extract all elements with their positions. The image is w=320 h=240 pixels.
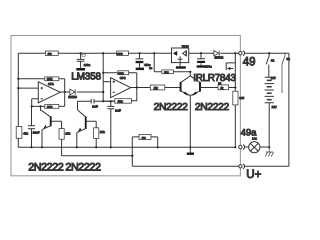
wire Q1 collector to feedback — [40, 106, 43, 110]
wire Q2 emitter down — [76, 132, 79, 147]
wire OP1 top feedback row — [18, 79, 64, 107]
ground — [187, 147, 194, 155]
svg-text:S1: S1 — [271, 59, 275, 63]
svg-text:OP1: OP1 — [48, 82, 54, 86]
svg-text:0.05: 0.05 — [239, 97, 244, 100]
junction dot — [234, 52, 236, 54]
svg-text:2N2222: 2N2222 — [154, 102, 189, 113]
diode D1 1N4148 — [68, 89, 77, 99]
wire OP2 100k row — [103, 73, 137, 88]
resistor R3 40k — [16, 127, 28, 139]
capacitor C8 100n — [197, 53, 212, 68]
wire left bias column — [17, 53, 19, 147]
resistor R11 5R6 — [162, 70, 174, 74]
wire 2k2 right drop — [151, 137, 158, 148]
junction dot — [189, 71, 191, 73]
wire OP2 feedback row — [103, 100, 115, 102]
capacitor C7 470u — [136, 53, 151, 67]
svg-text:2N2222: 2N2222 — [28, 161, 64, 173]
op-amp OP2 — [111, 76, 131, 98]
wire OP1 inverting input — [32, 99, 39, 107]
resistor R4 100k — [45, 77, 59, 81]
wire Q3 base stub — [179, 87, 181, 89]
switch S2 — [282, 53, 290, 93]
junction dot — [31, 105, 33, 107]
svg-text:2k2: 2k2 — [142, 137, 147, 140]
svg-text:100k: 100k — [47, 106, 53, 109]
svg-text:1n4F: 1n4F — [92, 105, 98, 108]
wire OP2 plus stub — [103, 81, 110, 83]
wire OP1 output — [60, 91, 103, 93]
wire U+ row — [132, 165, 239, 167]
capacitor C1 100n — [77, 54, 91, 68]
svg-text:100n: 100n — [205, 64, 212, 68]
wire drain branch — [226, 53, 235, 91]
wire OP1 noninverting input — [18, 87, 38, 89]
wire ground rail — [18, 146, 235, 148]
capacitor C4 10nF — [28, 106, 40, 147]
resistor R6 10k — [59, 129, 71, 140]
junction dot — [102, 100, 104, 102]
svg-text:1N4148: 1N4148 — [68, 96, 77, 99]
regulator U2 78L05 — [172, 46, 190, 63]
junction dot — [80, 52, 82, 54]
wire sense to lamp rail — [234, 105, 236, 148]
junction dot — [110, 100, 112, 102]
junction dot — [153, 52, 155, 54]
junction dot — [17, 78, 19, 80]
junction dot — [131, 155, 133, 157]
capacitor C6 2n4F — [107, 101, 121, 147]
wire OP2 output row — [131, 87, 180, 89]
wire sense feedback row — [62, 155, 133, 157]
wire external supply top — [245, 53, 289, 166]
wire R7 to ground rail — [95, 138, 97, 147]
junction dot — [30, 146, 32, 148]
svg-text:100k: 100k — [118, 73, 124, 76]
svg-text:2N2222: 2N2222 — [65, 161, 101, 173]
svg-text:10k: 10k — [65, 131, 70, 135]
svg-text:S2: S2 — [286, 57, 290, 61]
resistor R1 10k — [45, 51, 58, 56]
wire 2k2 left drop — [132, 137, 139, 166]
resistor R10 10k output — [150, 85, 165, 90]
junction dot — [95, 146, 97, 148]
ground — [197, 65, 206, 67]
battery BAT 12V — [265, 76, 277, 147]
resistor R13 sense 0.05 — [233, 91, 245, 105]
transistor Q2 2N2222 — [78, 110, 97, 132]
wire divider column x103 — [102, 53, 104, 101]
svg-text:U+: U+ — [246, 169, 261, 181]
drain arrow — [227, 67, 233, 70]
wire OP2 feedback drop — [131, 88, 136, 101]
svg-text:100k: 100k — [117, 53, 123, 56]
junction dot — [76, 146, 78, 148]
wire Q4 base row — [201, 87, 236, 89]
connector U+ — [239, 164, 245, 169]
svg-text:2N2222: 2N2222 — [195, 102, 230, 113]
wire 78L05 ground pin — [179, 63, 181, 67]
svg-text:10nF: 10nF — [33, 131, 40, 135]
junction dot — [110, 146, 112, 148]
svg-text:OP2: OP2 — [120, 76, 126, 80]
svg-text:2n4F: 2n4F — [115, 110, 121, 113]
svg-text:BAT: BAT — [271, 76, 276, 80]
junction dot — [268, 146, 270, 148]
wire R6 to sense line — [61, 139, 63, 156]
ground — [176, 66, 186, 68]
connector 49a — [239, 145, 245, 150]
wire Q2 collector to cap row — [77, 101, 79, 110]
junction dot — [189, 146, 191, 148]
svg-text:110k: 110k — [118, 101, 124, 104]
wire external U+ return — [245, 165, 289, 167]
node C2 label — [82, 54, 85, 56]
transistor Q1 2N2222 — [41, 110, 61, 129]
op-amp OP1 — [38, 82, 60, 103]
junction dot — [102, 52, 104, 54]
junction dot — [64, 91, 66, 93]
junction dot — [39, 105, 41, 107]
junction dot — [234, 86, 236, 88]
junction dot — [157, 146, 159, 148]
svg-text:100k: 100k — [47, 78, 53, 81]
wire Q1 emitter down — [41, 129, 44, 147]
resistor R8 100k — [118, 71, 129, 76]
transistor pair Q3 Q4 2N2222 — [181, 76, 200, 96]
junction dot — [268, 52, 270, 54]
junction dot — [41, 146, 43, 148]
ground chassis — [265, 147, 273, 157]
resistor R7 10k — [94, 128, 106, 139]
svg-text:LA1: LA1 — [252, 137, 257, 141]
svg-text:49: 49 — [243, 57, 256, 69]
wire OP1 feedback bottom row — [32, 105, 65, 107]
svg-text:78L05: 78L05 — [182, 46, 189, 49]
svg-text:10k: 10k — [100, 130, 105, 134]
junction dot — [17, 87, 19, 89]
resistor R14 2k2 — [139, 135, 151, 140]
svg-text:5R6: 5R6 — [164, 71, 169, 74]
lamp LA1 — [245, 137, 270, 153]
svg-text:IRLR7843: IRLR7843 — [193, 73, 236, 84]
junction dot — [102, 72, 104, 74]
wire Q3Q4 emitter down — [189, 96, 191, 148]
ground — [76, 68, 85, 71]
svg-text:470u: 470u — [144, 63, 151, 67]
svg-text:100n: 100n — [84, 63, 91, 67]
junction dot — [102, 91, 104, 93]
diode D2 1N5819 — [214, 51, 224, 60]
junction dot — [136, 86, 138, 88]
ground — [136, 68, 144, 71]
capacitor C5 1n4F series — [78, 99, 115, 108]
svg-text:40k: 40k — [23, 131, 28, 135]
svg-text:LM358: LM358 — [71, 72, 101, 83]
svg-text:12V: 12V — [272, 105, 277, 109]
switch S1 — [266, 53, 275, 77]
svg-text:1N5819: 1N5819 — [215, 56, 224, 59]
resistor R5 100k — [45, 105, 59, 109]
junction dot — [200, 52, 202, 54]
wire top supply rail — [18, 52, 239, 54]
junction dot — [138, 52, 140, 54]
resistor R12 1k — [218, 82, 229, 90]
wire 5R6 row — [154, 53, 190, 76]
connector 49 — [239, 51, 245, 56]
junction dot — [234, 146, 236, 148]
resistor R9 110k — [115, 99, 132, 104]
resistor R2 100k — [117, 51, 129, 56]
